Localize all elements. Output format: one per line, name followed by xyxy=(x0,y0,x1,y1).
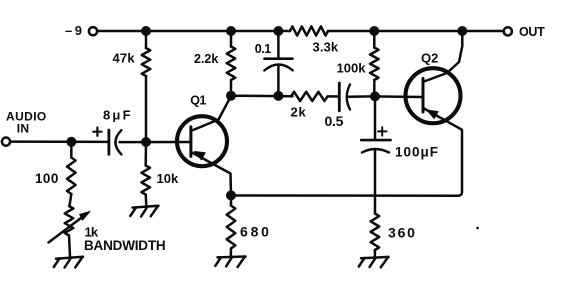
node K junction Q1 emitter / 680 / bottom rail xyxy=(226,190,236,200)
resistor R 100k xyxy=(337,31,379,96)
svg-text:0.5: 0.5 xyxy=(325,113,344,129)
svg-text:OUT: OUT xyxy=(519,25,545,39)
wire audio input to coupling cap xyxy=(10,140,108,143)
resistor R 47k xyxy=(113,31,151,142)
node D junction top of 100k xyxy=(369,26,379,36)
wire mid rail from Q1 collector to 0.1 cap xyxy=(231,94,293,97)
ground under 10k xyxy=(130,206,158,217)
capacitor C 0.5 xyxy=(325,83,376,129)
node I junction 0.1 cap bottom xyxy=(273,91,283,101)
resistor R 2.2k xyxy=(194,31,235,96)
wire node J to Q2 base xyxy=(375,95,422,98)
node J junction 100k / 100uF / Q2 base xyxy=(370,91,380,101)
svg-text:100: 100 xyxy=(35,171,59,186)
wire top supply rail right section xyxy=(328,30,504,33)
resistor R 100 xyxy=(35,142,76,206)
capacitor C 0.1 xyxy=(255,31,293,96)
svg-text:BANDWIDTH: BANDWIDTH xyxy=(84,238,165,253)
svg-text:0.1: 0.1 xyxy=(255,42,271,56)
svg-text:100k: 100k xyxy=(337,61,367,76)
speck artifact xyxy=(476,227,479,230)
resistor R 360 xyxy=(371,214,417,257)
transistor Q2 (PNP) xyxy=(406,31,463,196)
node G junction base of Q1 / 47k / 10k xyxy=(141,137,151,147)
svg-text:2.2k: 2.2k xyxy=(194,52,218,66)
terminal AUDIO IN xyxy=(2,110,47,146)
svg-text:IN: IN xyxy=(17,121,30,135)
node F junction input / 100 ohm xyxy=(66,137,76,147)
ground under 680 xyxy=(215,257,245,268)
resistor R 680 xyxy=(227,195,272,256)
svg-text:100μF: 100μF xyxy=(395,144,439,159)
node E junction Q2 collector / OUT xyxy=(457,26,467,36)
svg-text:Q1: Q1 xyxy=(190,94,206,108)
svg-text:2k: 2k xyxy=(291,105,307,120)
resistor R 10k xyxy=(141,142,179,206)
capacitor C 8uF (polarized) xyxy=(93,107,189,154)
capacitor C 100uF (polarized) xyxy=(361,96,439,213)
wire top supply rail left section xyxy=(98,30,291,33)
terminal -9 supply xyxy=(65,23,97,38)
svg-text:–9: –9 xyxy=(65,23,84,38)
potentiometer R 1k BANDWIDTH xyxy=(49,206,166,257)
svg-text:10k: 10k xyxy=(157,171,179,186)
svg-text:360: 360 xyxy=(388,225,417,241)
terminal OUT xyxy=(504,25,545,39)
svg-text:8μF: 8μF xyxy=(103,107,133,122)
resistor R 3.3k (in top rail) xyxy=(290,26,339,54)
wire 2k to 0.5 cap xyxy=(329,95,340,98)
svg-text:680: 680 xyxy=(240,224,272,240)
ground under 360 xyxy=(359,257,389,267)
wire bottom rail Q1 emitter to Q2 emitter xyxy=(231,194,458,197)
node A junction top of 47k xyxy=(141,26,151,36)
svg-text:3.3k: 3.3k xyxy=(313,39,339,54)
resistor R 2k xyxy=(291,92,328,120)
svg-text:47k: 47k xyxy=(113,51,136,66)
node H junction Q1 collector / 2.2k / mid rail xyxy=(226,91,236,101)
ground under 1k pot xyxy=(54,257,83,268)
transistor Q1 (PNP) xyxy=(177,94,231,196)
svg-text:Q2: Q2 xyxy=(421,50,438,65)
node B junction top of 2.2k xyxy=(226,26,236,36)
node C junction top of 0.1 cap xyxy=(273,26,283,36)
